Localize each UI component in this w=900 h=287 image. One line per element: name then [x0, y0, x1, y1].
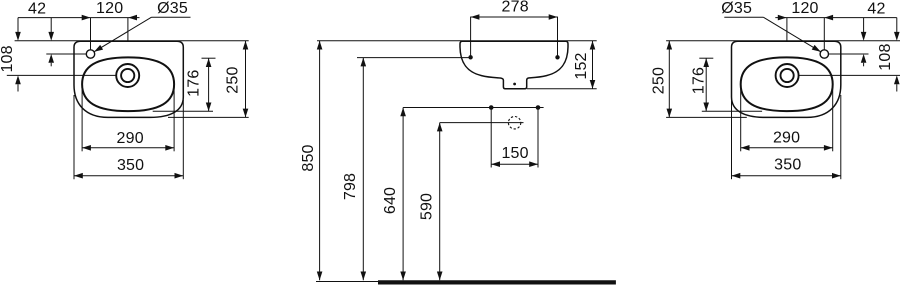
svg-text:798: 798 [342, 173, 359, 200]
svg-text:120: 120 [791, 0, 818, 17]
svg-text:290: 290 [117, 130, 144, 147]
svg-text:590: 590 [419, 193, 436, 220]
svg-text:Ø35: Ø35 [721, 0, 752, 17]
svg-text:Ø35: Ø35 [157, 0, 188, 17]
svg-text:42: 42 [28, 1, 46, 18]
svg-text:42: 42 [867, 1, 885, 18]
svg-text:108: 108 [0, 45, 16, 72]
svg-text:250: 250 [650, 67, 667, 94]
svg-text:152: 152 [573, 52, 590, 79]
svg-text:150: 150 [501, 145, 528, 162]
svg-text:176: 176 [691, 67, 708, 94]
svg-text:278: 278 [502, 0, 529, 16]
svg-text:120: 120 [96, 0, 123, 17]
svg-text:108: 108 [877, 43, 894, 70]
svg-text:850: 850 [300, 144, 317, 171]
svg-text:176: 176 [186, 70, 203, 97]
svg-text:350: 350 [117, 157, 144, 174]
svg-text:350: 350 [774, 157, 801, 174]
svg-text:290: 290 [773, 129, 800, 146]
svg-text:250: 250 [224, 66, 241, 93]
svg-text:640: 640 [382, 187, 399, 214]
